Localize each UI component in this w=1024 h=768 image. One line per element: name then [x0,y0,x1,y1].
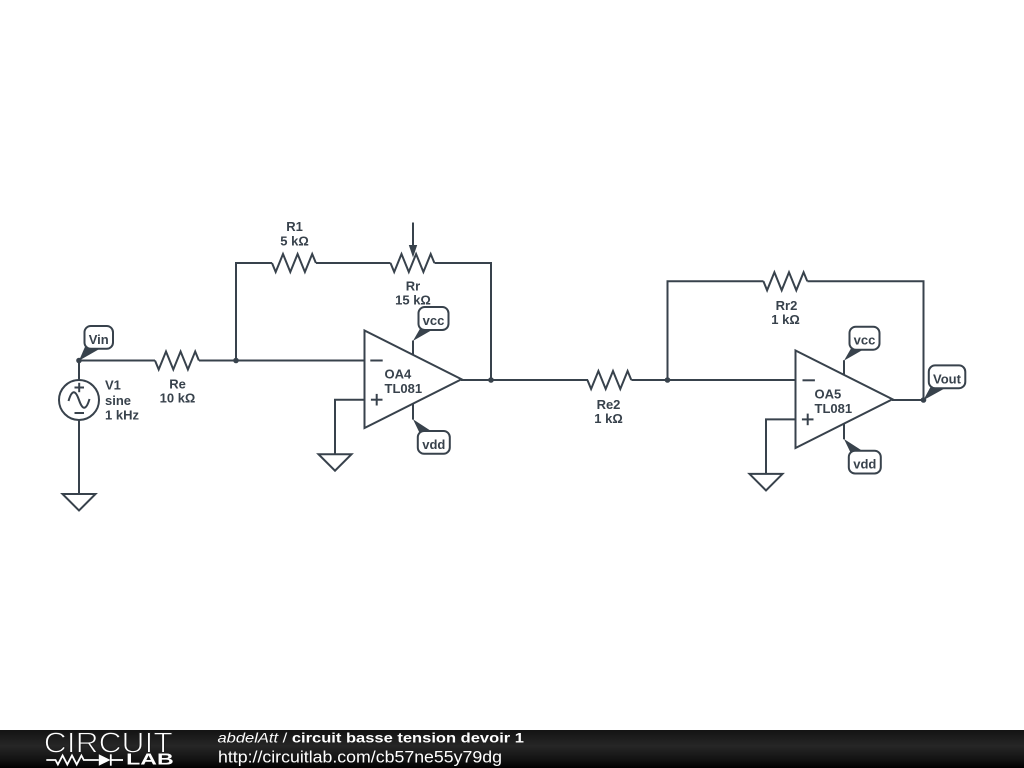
wire: OA4 output to Re2 [461,379,588,381]
svg-text:1 kΩ: 1 kΩ [594,411,623,426]
svg-text:sine: sine [105,393,131,408]
wire: OA5 output to node E [892,399,924,401]
CircuitLab logo resistor-diode glyph [46,754,123,765]
wire: Re2 to OA5 inverting input [631,379,795,381]
ground GND2 (OA4 +) [319,454,352,471]
svg-text:LAB: LAB [126,751,174,768]
wire: Re to OA4 inverting input [199,360,365,362]
svg-text:Rr: Rr [406,279,420,294]
svg-text:abdelAtt / circuit basse tensi: abdelAtt / circuit basse tension devoir … [218,729,525,745]
node E output junction dot [921,397,927,403]
svg-text:Rr2: Rr2 [776,298,798,313]
wire: junction D up and over to Rr2 (feedback rail 2 left) [668,281,764,380]
wire: OA5 noninverting input to ground [766,419,796,474]
node A dot (Vin) [76,358,82,364]
svg-text:TL081: TL081 [385,381,423,396]
wire: OA4 noninverting input to ground [335,400,365,455]
net flag vcc (OA4) [413,307,449,341]
CircuitLab logo text CIRCUIT [44,727,173,759]
svg-text:vdd: vdd [853,457,876,472]
svg-text:5 kΩ: 5 kΩ [280,234,309,249]
svg-text:10 kΩ: 10 kΩ [160,391,196,406]
footer bar [0,730,1024,768]
svg-text:15 kΩ: 15 kΩ [395,293,431,308]
node C junction dot [488,377,494,383]
svg-text:R1: R1 [286,219,303,234]
svg-text:OA4: OA4 [385,367,413,382]
op-amp OA4 [365,331,462,429]
svg-text:OA5: OA5 [815,386,842,401]
net flag vdd (OA4) [413,419,450,454]
svg-text:1 kHz: 1 kHz [105,407,139,422]
resistor Re [155,352,199,370]
wire: R1 to Rr [316,262,391,264]
label Rr2 1 kOhm [771,298,800,327]
label Re 10 kOhm [160,377,196,406]
label OA4 TL081 [385,367,423,397]
footer url [218,748,502,766]
net flag Vin [79,326,113,361]
footer title [218,729,525,745]
net flag vdd (OA5) [844,439,881,474]
voltage source V1 [59,380,99,420]
potentiometer Rr [391,223,435,273]
svg-text:Re2: Re2 [597,397,621,412]
wire: node A down to V1 top [78,361,80,382]
label OA5 TL081 [815,386,853,416]
op-amp OA5 [796,351,893,449]
net flag vcc (OA5) [844,327,880,361]
label R1 5 kOhm [280,219,309,249]
resistor Re2 [587,371,631,389]
wire: V1 bottom to ground [78,420,80,494]
wire: Rr right and down to output node C [435,263,492,380]
wire: junction B up and over to R1 (feedback rail left) [236,263,272,361]
svg-text:Re: Re [169,377,186,392]
svg-text:1 kΩ: 1 kΩ [771,312,800,327]
CircuitLab logo text LAB [126,751,174,768]
svg-text:Vin: Vin [89,332,109,347]
svg-text:TL081: TL081 [815,401,853,416]
ground GND3 (OA5 +) [750,474,783,491]
svg-text:vcc: vcc [854,333,876,348]
svg-text:vdd: vdd [422,437,445,452]
svg-text:Vout: Vout [933,371,962,386]
svg-text:V1: V1 [105,378,121,393]
node B junction dot [233,358,239,364]
pin: OA4 vdd [412,404,414,420]
pin: OA5 vcc [843,360,845,375]
net flag Vout [923,365,965,400]
node D junction dot [665,377,671,383]
ground GND1 (V1) [63,494,96,511]
svg-text:http://circuitlab.com/cb57ne55: http://circuitlab.com/cb57ne55y79dg [218,748,502,766]
wire: node A to Re [79,360,155,362]
pin: OA4 vcc [412,341,414,356]
label Rr 15 kOhm [395,279,431,308]
pin: OA5 vdd [843,424,845,440]
label V1 sine 1 kHz [105,378,139,423]
label Re2 1 kOhm [594,397,623,426]
resistor R1 [272,254,316,272]
wire: Rr2 right and down to output node E [807,281,923,400]
resistor Rr2 [763,272,807,290]
svg-text:vcc: vcc [423,313,445,328]
